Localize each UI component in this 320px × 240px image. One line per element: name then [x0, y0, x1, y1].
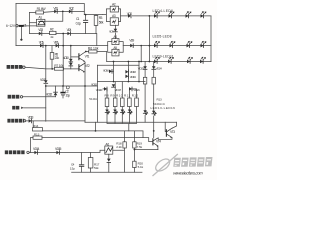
svg-text:A5: A5	[113, 46, 117, 50]
wire row3 bus	[16, 45, 108, 47]
svg-text:VD4: VD4	[67, 28, 72, 32]
wire VT2 emitter drop	[84, 62, 86, 122]
diode VD10b	[69, 63, 73, 66]
wire VD1-VD2 segment	[57, 10, 84, 12]
LED panel 4	[128, 110, 133, 115]
diode VD20	[104, 87, 107, 91]
label brake light chinese	[7, 65, 11, 69]
svg-text:VD19: VD19	[130, 75, 136, 79]
resistor R1	[36, 11, 44, 14]
wire VT1 base feed	[71, 56, 79, 58]
svg-text:7.5k: 7.5k	[137, 145, 143, 149]
wire C4 branch	[81, 153, 83, 173]
terminal brake light	[23, 66, 25, 68]
wire mid feed y14.6	[84, 14, 102, 16]
wire R17 branch	[90, 153, 92, 173]
junction node row2 x63	[62, 33, 64, 35]
wire R13 row	[31, 138, 153, 142]
svg-text:C1: C1	[76, 17, 80, 21]
wire left mid rail x45.8	[45, 46, 47, 122]
svg-text:2.2k: 2.2k	[116, 145, 122, 149]
diode VD18	[125, 70, 128, 74]
LED row3 d	[200, 57, 206, 63]
diode VD4	[67, 32, 70, 36]
svg-text:VD10: VD10	[63, 56, 69, 60]
junction node bus VT4	[134, 149, 136, 151]
junction node VT1 collector	[85, 51, 87, 53]
wire A4 A5 input bracket	[108, 42, 112, 53]
wire R13 left drop	[30, 138, 32, 153]
svg-text:VD16: VD16	[103, 69, 109, 73]
wire A6 output to R18 column	[113, 148, 125, 172]
terminal ground	[21, 107, 23, 109]
svg-text:LED4-LED6: LED4-LED6	[153, 9, 174, 13]
svg-text:www.elecfans.com: www.elecfans.com	[173, 171, 204, 176]
diode VD2	[69, 10, 72, 14]
wire A2 A3 output bracket	[119, 9, 121, 22]
wire right rail	[210, 16, 212, 62]
A1 inner symbol	[38, 21, 45, 25]
wire row1 LED feed	[121, 15, 211, 17]
wire R19 R20 column	[133, 131, 135, 172]
junction node row3 x63	[62, 45, 64, 47]
wire A1 output up to VD junction	[45, 11, 63, 21]
svg-text:R3: R3	[99, 16, 103, 20]
wire mid horizontal y86	[46, 85, 98, 87]
A2 inner diode symbol	[112, 8, 115, 11]
resistor R15a	[143, 77, 146, 84]
LED row3 c	[187, 57, 193, 63]
wire A6 bottom lead	[108, 154, 110, 172]
watermark brand glyph 4	[197, 157, 205, 166]
diode VD12	[54, 92, 58, 95]
terminal left turn	[24, 120, 26, 122]
svg-text:VD1: VD1	[53, 6, 58, 10]
transistor VT1	[78, 54, 80, 60]
resistor R10	[121, 98, 125, 107]
wire left turn row	[26, 120, 85, 122]
svg-text:R13: R13	[34, 132, 40, 136]
wire ground row	[24, 107, 46, 109]
wire inner box top edge	[97, 64, 139, 66]
resistor R13	[33, 136, 42, 139]
svg-text:VD6: VD6	[54, 40, 59, 44]
wire VD21 link	[132, 89, 137, 98]
IC box A3	[110, 18, 118, 26]
diode VD13	[29, 119, 32, 123]
resistor R12	[135, 98, 139, 107]
svg-text:VD15: VD15	[55, 147, 62, 151]
resistor R9	[113, 98, 117, 107]
wire left rail	[15, 4, 17, 46]
svg-text:1.5μ: 1.5μ	[70, 166, 75, 170]
svg-text:LED9-LED11: LED9-LED11	[153, 55, 174, 59]
wire A4 A5 output bracket	[119, 42, 123, 53]
wire inner box left edge	[96, 65, 98, 122]
svg-text:VD24: VD24	[156, 66, 163, 70]
resistor R2	[50, 31, 57, 34]
svg-text:VD23: VD23	[138, 66, 145, 70]
svg-text:A4: A4	[113, 35, 117, 39]
svg-text:R7 10k: R7 10k	[54, 64, 64, 68]
svg-text:VD21: VD21	[133, 88, 140, 92]
LED row1 c	[186, 12, 192, 18]
wire led collect bus	[107, 107, 137, 131]
svg-text:A2: A2	[112, 3, 116, 7]
svg-text:VD17: VD17	[115, 88, 122, 92]
svg-text:VD8: VD8	[109, 30, 114, 34]
diode VD23	[143, 66, 147, 69]
svg-text:VD13: VD13	[28, 115, 34, 119]
wire supply input	[18, 25, 36, 27]
diode VD17	[112, 84, 116, 87]
wire R1 row	[30, 11, 55, 14]
svg-text:R14: R14	[33, 124, 39, 128]
wire led chain right x153.7	[153, 62, 155, 138]
svg-text:VT3: VT3	[170, 130, 175, 134]
diode VD11	[44, 80, 48, 83]
svg-text:C1: C1	[23, 23, 27, 27]
svg-text:5.1k: 5.1k	[138, 165, 144, 169]
wire A1 input stub	[30, 22, 37, 24]
svg-text:510Ω: 510Ω	[89, 97, 97, 101]
watermark brand glyph 5	[205, 157, 213, 166]
A5 inner diode symbol	[113, 51, 116, 54]
junction node rail81 cols	[113, 81, 115, 83]
junction node row3-x70.8	[70, 45, 72, 47]
diode VD25 blob below A6	[107, 159, 111, 162]
terminal right turn	[27, 151, 29, 153]
wire bottom rail1	[43, 131, 144, 138]
resistor R20	[133, 161, 136, 167]
LED panel 1	[105, 110, 110, 115]
IC box A2	[110, 6, 118, 12]
svg-text:VT2: VT2	[85, 64, 90, 68]
junction node VD1-VD2	[62, 11, 64, 13]
wire VD16 link	[112, 70, 114, 72]
svg-text:VD5: VD5	[39, 40, 44, 44]
transistor VT3	[165, 130, 167, 136]
resistor R14	[33, 128, 43, 131]
svg-text:VD18: VD18	[130, 70, 136, 74]
svg-text:R6 10k: R6 10k	[88, 47, 99, 51]
resistor R3	[94, 15, 98, 25]
diode VD21	[129, 87, 132, 91]
svg-text:R8 R9 R10 R11 R12: R8 R9 R10 R11 R12	[105, 93, 139, 97]
junction node row1	[149, 15, 151, 17]
wire top border	[16, 4, 84, 15]
LED row2 c	[187, 41, 193, 47]
svg-text:VT1: VT1	[85, 54, 90, 58]
resistor R11	[128, 98, 132, 107]
svg-text:A3: A3	[112, 14, 116, 18]
wire inner box col1	[113, 62, 115, 82]
svg-text:VD2: VD2	[69, 6, 74, 10]
LED row3 b	[168, 57, 174, 63]
svg-text:10μ: 10μ	[65, 93, 70, 97]
wire resistor top leads	[115, 82, 129, 98]
svg-text:6~12V: 6~12V	[6, 24, 16, 28]
IC box A1	[36, 19, 45, 26]
wire tail light row	[23, 96, 56, 98]
LED chain right glyph	[152, 111, 157, 116]
junction node feed x141	[140, 45, 142, 47]
resistor R18	[123, 142, 126, 148]
diode VD15	[56, 151, 59, 155]
svg-text:VD12: VD12	[46, 93, 53, 97]
wire bottom bus y122	[85, 121, 177, 123]
LED row1 a	[154, 12, 160, 18]
svg-text:R2: R2	[50, 28, 54, 32]
LED row2 d	[201, 41, 207, 47]
capacitor C1 electrolytic lead	[20, 27, 22, 39]
capacitor C2 leads	[62, 86, 64, 98]
LED row2 a	[154, 41, 160, 47]
terminal tail light	[20, 96, 22, 98]
junction node R5 brake	[51, 68, 53, 70]
wire row2	[30, 34, 97, 46]
diode VD19	[125, 74, 128, 78]
resistor R19	[133, 142, 136, 148]
svg-text:A1: A1	[38, 16, 42, 20]
wire VT3 base drop	[165, 122, 166, 131]
resistor R8	[105, 98, 109, 107]
label ground chinese	[12, 106, 15, 110]
LED row1 d	[201, 12, 207, 18]
svg-text:R1 6W: R1 6W	[37, 7, 47, 11]
svg-text:VD9: VD9	[129, 39, 134, 43]
capacitor C1 leads	[85, 15, 87, 34]
capacitor C1e input plate	[20, 25, 23, 27]
diode VD5	[40, 44, 43, 48]
wire mid rail x70.8	[70, 46, 72, 69]
resistor R5	[50, 53, 54, 60]
wire bottom rail2	[72, 171, 142, 173]
wire VD20 link	[103, 89, 107, 98]
diode VD16	[109, 69, 112, 73]
wire row2 LED feed	[123, 46, 211, 62]
IC box A5	[112, 49, 119, 56]
svg-text:LED13-LED16: LED13-LED16	[151, 106, 176, 110]
capacitor C1 plates	[84, 20, 88, 22]
wire right turn row	[29, 150, 105, 152]
label left turn chinese	[7, 119, 10, 123]
wire led chain left x145	[144, 62, 146, 123]
diode VD9	[130, 44, 133, 48]
LED row1 b	[169, 12, 175, 18]
wire VD12 branch	[55, 86, 57, 97]
svg-text:0.2μ: 0.2μ	[76, 22, 81, 26]
IC box A6	[105, 146, 113, 154]
svg-text:VD11: VD11	[40, 78, 47, 82]
diode VD6	[56, 44, 59, 48]
junction node rail x95.5	[95, 130, 97, 132]
diode VD14	[34, 151, 37, 155]
diode VD3	[39, 32, 42, 36]
junction node C1 top	[85, 14, 87, 16]
watermark brand glyph 1	[173, 158, 181, 167]
wire VT4 emitter row	[134, 149, 158, 151]
wire row2 drop x63.2	[62, 34, 64, 87]
svg-text:A6: A6	[105, 143, 109, 147]
wire bus to rail link	[95, 122, 97, 131]
wire row3 leds	[107, 61, 211, 63]
LED row3 a	[154, 57, 160, 63]
resistor R3 leads	[95, 15, 97, 34]
diode VD24	[152, 66, 156, 69]
A6 inner symbol	[106, 147, 113, 152]
diode VD8	[114, 29, 118, 32]
svg-text:VD20: VD20	[96, 88, 103, 92]
svg-text:20k: 20k	[55, 56, 60, 60]
svg-text:51k: 51k	[94, 166, 99, 170]
terminal supply input	[16, 25, 18, 27]
watermark logo swoosh	[153, 155, 178, 176]
junction node y86-VT2	[84, 85, 86, 87]
LED panel 2	[113, 110, 118, 115]
wire R1 left lead down to row2	[29, 12, 31, 33]
svg-text:VD14: VD14	[33, 147, 40, 151]
wire brake light row	[25, 67, 79, 69]
capacitor C2 polarity circle	[66, 86, 69, 89]
label right turn chinese	[5, 150, 8, 154]
wire A2 A3 input bracket	[103, 9, 111, 22]
LED panel 3	[121, 110, 126, 115]
wire R18 lead	[124, 131, 126, 142]
LED chain left glyph	[143, 110, 148, 115]
capacitor C2 plates	[61, 92, 65, 94]
resistor R7	[54, 67, 63, 70]
svg-text:VT4: VT4	[156, 140, 161, 144]
watermark brand glyph 3	[189, 157, 197, 166]
junction node y86-x45.8	[45, 85, 47, 87]
diode VD1	[54, 10, 57, 14]
junction node x153 rail	[153, 130, 155, 132]
A4 inner diode symbol	[113, 40, 116, 43]
wire inner rail y81.6	[97, 81, 145, 83]
transistor VT2	[78, 65, 80, 71]
resistor R15b	[152, 77, 155, 84]
svg-text:4k: 4k	[50, 35, 54, 39]
junction node row3-x45.8	[45, 45, 47, 47]
LED row2 b	[170, 41, 176, 47]
transistor VT4	[152, 139, 154, 145]
junction node row3 cols	[113, 61, 115, 63]
svg-text:VD7: VD7	[127, 12, 132, 16]
capacitor C4 plates	[79, 165, 83, 167]
resistor R6	[89, 50, 97, 53]
diode VD10	[69, 59, 73, 62]
wire drop x149.4	[148, 16, 150, 62]
svg-text:VD3: VD3	[38, 28, 43, 32]
label tail light chinese	[8, 95, 12, 99]
wire inner box col2	[127, 62, 129, 82]
A3 inner diode symbol	[112, 20, 115, 23]
resistor R17	[88, 158, 93, 169]
wire VT3 collector	[173, 122, 177, 128]
wire inner box col3	[138, 62, 140, 82]
diode VD7	[128, 14, 131, 18]
IC box A4	[112, 39, 119, 45]
resistor R5 leads	[51, 46, 53, 69]
wire R14 branch	[32, 121, 34, 128]
watermark brand glyph 2	[181, 158, 189, 167]
junction node y86-C2	[62, 85, 64, 87]
svg-text:VD15: VD15	[91, 83, 97, 87]
svg-text:56k: 56k	[99, 21, 104, 25]
wire R6 row collector	[86, 52, 107, 62]
svg-text:LED5-LED8: LED5-LED8	[153, 34, 172, 38]
wire VD8 link A3 to A4	[114, 25, 116, 38]
